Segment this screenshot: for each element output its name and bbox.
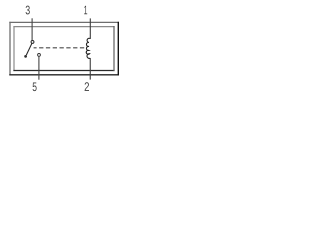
- pin 3 wire: [31, 18, 33, 40]
- relay body inner rectangle: [13, 26, 114, 71]
- switch fixed contact circle (pin 3): [31, 40, 34, 43]
- relay body outer rectangle: [9, 22, 119, 76]
- pin 3 label: [26, 6, 30, 15]
- mechanical link dashed line: [34, 47, 86, 49]
- relay coil: [86, 38, 90, 58]
- pin 1 wire: [89, 18, 91, 39]
- pin 5 label: [33, 82, 37, 91]
- pin 5 wire: [38, 56, 40, 79]
- pin 1 label: [84, 6, 87, 15]
- switch fixed contact circle (pin 5): [38, 54, 41, 57]
- pin 2 label: [85, 82, 89, 91]
- switch lever end circle: [24, 55, 27, 58]
- pin 2 wire: [89, 58, 91, 80]
- switch lever arm: [26, 43, 32, 55]
